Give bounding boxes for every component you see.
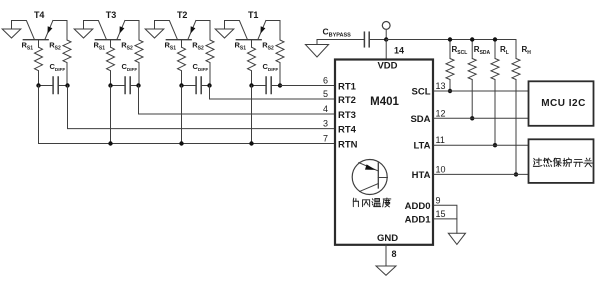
resistor RS2 of T1 [276,21,284,86]
wire SCL to MCU [434,90,529,92]
junction RH bottom [514,172,518,176]
svg-text:T1: T1 [248,10,259,20]
junction node left of T3 [108,83,112,87]
junction RSCL on VDD rail [448,37,452,41]
svg-text:15: 15 [436,209,446,219]
wire T1 RS1 down to RTN bus [251,86,253,144]
junction RL on VDD rail [493,37,497,41]
svg-text:HTA: HTA [412,170,431,181]
capacitor CDIFF of T1 [252,77,281,94]
wire T1 RS2 to IC pin [280,85,335,87]
transistor on-chip temperature sensor [352,160,387,195]
capacitor CBYPASS [364,32,369,47]
wire T4 RS2 to IC pin [68,86,336,129]
transistor T1 [225,21,281,40]
capacitor CDIFF of T4 [39,77,68,94]
junction node right of T2 [207,83,211,87]
resistor RS2 of T3 [135,21,143,86]
ground at ADD pins [448,233,465,244]
svg-text:ADD1: ADD1 [405,214,432,225]
svg-text:8: 8 [392,249,397,259]
svg-text:ADD0: ADD0 [405,201,431,212]
op-amp U1 M401 body [335,60,433,245]
junction node right of T3 [136,83,140,87]
svg-text:VDD: VDD [377,61,397,72]
box thermal protection switch [529,139,594,183]
resistor RS2 of T4 [63,21,71,86]
svg-text:T4: T4 [34,10,45,20]
transistor T2 [155,21,211,40]
ground at T4 collector [2,21,21,39]
resistor RL [491,40,499,146]
ground at T3 collector [74,21,93,39]
resistor RS1 of T4 [35,40,43,86]
junction RL bottom [493,143,497,147]
junction on RTN bus at T3 [108,141,112,145]
transistor T3 [84,21,140,40]
wire GND pin 8 stub [385,245,387,266]
svg-text:SCL: SCL [412,87,431,98]
wire VDD pin 14 stub [385,40,387,60]
junction node left of T4 [36,83,40,87]
svg-text:T2: T2 [177,10,188,20]
wire SDA to MCU [434,117,529,119]
svg-text:RT3: RT3 [338,110,356,121]
resistor RS1 of T1 [248,40,256,86]
ground at T2 collector [145,21,164,39]
junction RSDA on VDD rail [470,37,474,41]
wire T2 RS1 down to RTN bus [181,86,183,144]
svg-text:3: 3 [323,119,328,129]
wire T4 RS1 down to RTN bus [39,86,336,144]
wire cap to VDD node [369,39,386,41]
transistor T4 [12,21,68,40]
ground at bypass cap [305,40,328,58]
svg-text:RT1: RT1 [338,81,357,92]
ground at T1 collector [215,21,234,39]
svg-text:7: 7 [323,134,328,144]
VDD supply terminal [382,22,390,40]
wire T2 RS2 to IC pin [210,86,336,100]
svg-text:RT2: RT2 [338,95,356,106]
label thermal protection switch (Chinese) [533,158,592,167]
svg-text:RT4: RT4 [338,124,357,135]
junction node left of T2 [179,83,183,87]
svg-text:MCU I2C: MCU I2C [541,98,586,109]
svg-text:9: 9 [436,195,441,205]
box MCU I2C [529,81,594,126]
capacitor CDIFF of T3 [111,77,140,94]
resistor RS1 of T2 [178,40,186,86]
svg-text:10: 10 [436,164,446,174]
junction node right of T1 [278,83,282,87]
svg-text:M401: M401 [370,96,399,108]
svg-text:T3: T3 [106,10,117,20]
wire VDD rail right [386,39,516,41]
junction node left of T1 [249,83,253,87]
svg-text:GND: GND [377,233,398,244]
ground at GND pin [376,266,396,275]
svg-text:14: 14 [394,46,404,56]
wire VDD rail [318,39,364,41]
wire ADD0 ADD1 to ground [434,205,457,233]
junction RSDA bottom [470,116,474,120]
wire LTA to switch box [434,144,529,146]
resistor RSDA [468,40,476,119]
wire T3 RS1 down to RTN bus [110,86,112,144]
resistor RS1 of T3 [107,40,115,86]
svg-text:13: 13 [436,81,446,91]
svg-text:5: 5 [323,89,328,99]
junction node right of T4 [65,83,69,87]
capacitor CDIFF of T2 [182,77,211,94]
resistor RH [512,40,520,175]
wire T3 RS2 to IC pin [139,86,336,115]
svg-text:LTA: LTA [413,141,430,152]
svg-text:12: 12 [436,108,446,118]
resistor RS2 of T2 [206,21,214,86]
junction on RTN bus at T1 [249,141,253,145]
node VDD junction [384,37,388,41]
junction RSCL bottom [448,89,452,93]
label on-chip temperature (Chinese) [353,198,391,207]
svg-text:11: 11 [436,135,445,145]
svg-text:SDA: SDA [410,114,430,125]
wire HTA to switch box [434,173,529,175]
junction on RTN bus at T2 [179,141,183,145]
svg-text:RTN: RTN [338,139,358,150]
svg-text:4: 4 [323,104,328,114]
svg-text:6: 6 [323,76,328,86]
resistor RSCL [446,40,454,92]
